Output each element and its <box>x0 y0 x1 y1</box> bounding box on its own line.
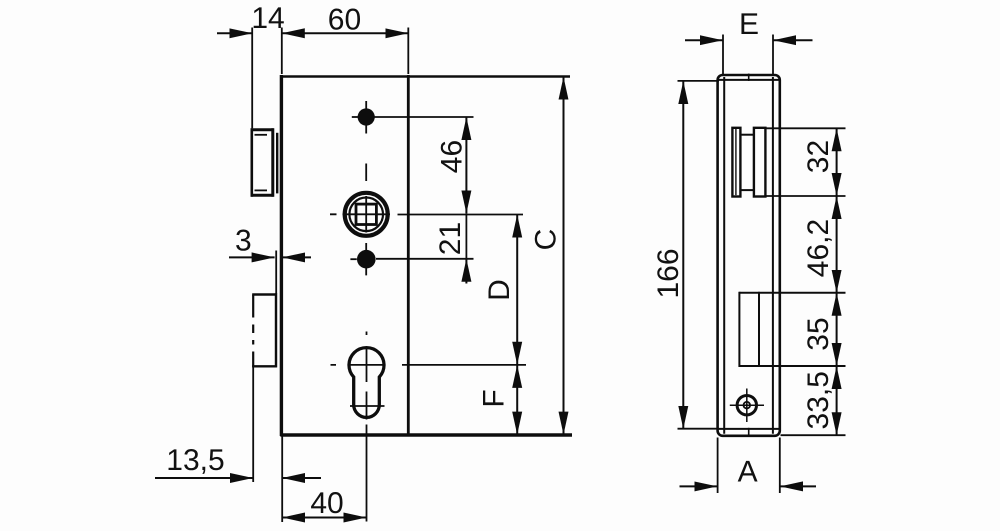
latch box top <box>251 128 274 131</box>
faceplate top tick <box>748 74 750 81</box>
right chain extension 128.3 <box>766 127 846 129</box>
deadbolt box bottom <box>252 365 277 367</box>
deadbolt slot right <box>758 292 760 367</box>
dim 166 extension lines <box>678 80 720 82</box>
dim 21 bottom arrow <box>465 259 467 284</box>
latch box left <box>251 128 254 196</box>
dim 21 line <box>465 213 467 258</box>
top hole <box>358 108 375 125</box>
spindle hub inner circle <box>349 198 383 232</box>
dim C line <box>563 77 565 435</box>
faceplate inner top line <box>719 79 780 81</box>
faceplate front line <box>275 251 277 295</box>
svg-text:21: 21 <box>434 222 467 255</box>
dim 46,2 line <box>836 196 838 293</box>
deadbolt box left dashed <box>252 295 254 368</box>
dim 166 line <box>682 81 684 429</box>
svg-text:14: 14 <box>251 2 284 35</box>
svg-text:35: 35 <box>802 317 835 350</box>
deadbolt box top <box>252 293 277 295</box>
spindle center line horizontal <box>330 213 390 215</box>
deadbolt box right <box>275 293 277 367</box>
top hole center marks <box>365 101 367 134</box>
dim 13,5 line left <box>155 477 253 479</box>
dim 14 line <box>217 32 252 34</box>
latch box bottom <box>251 194 274 197</box>
faceplate inner right line <box>772 77 774 434</box>
dim 40 line <box>282 517 366 519</box>
dim 60 right extension <box>407 28 409 75</box>
svg-text:32: 32 <box>802 140 835 173</box>
dim 60 line <box>282 32 409 34</box>
dim 13,5 line right <box>282 477 321 479</box>
euro cylinder hole outline <box>349 348 384 418</box>
latch notch top line <box>255 134 268 136</box>
svg-text:F: F <box>478 389 511 407</box>
faceplate outer outline (right view) <box>718 75 780 436</box>
extension body left bottom <box>281 437 283 523</box>
svg-text:60: 60 <box>328 3 361 36</box>
dim E line right <box>773 39 812 41</box>
dim 14 extension lines <box>251 28 253 129</box>
lock body bottom edge + C/F extension <box>280 433 572 436</box>
cylinder center line horizontal <box>331 364 385 366</box>
svg-text:3: 3 <box>235 224 252 257</box>
dim A line left <box>680 485 718 487</box>
latch box right <box>271 128 274 196</box>
deadbolt slot left <box>738 292 740 367</box>
spindle center line vertical <box>365 164 367 276</box>
svg-text:13,5: 13,5 <box>166 444 224 477</box>
dim 46 line <box>465 117 467 213</box>
screw hole inner <box>744 402 751 409</box>
svg-text:46,2: 46,2 <box>802 219 835 277</box>
screw hole center lines <box>746 389 748 423</box>
lock body left edge <box>280 75 283 436</box>
dim 3 line right <box>282 256 311 258</box>
lock body top edge + C extension <box>280 75 570 77</box>
deadbolt slot bottom + extension <box>739 365 845 367</box>
faceplate inner left line <box>723 77 725 434</box>
lower hole center marks <box>350 258 356 260</box>
cylinder center line vertical <box>366 332 368 522</box>
latch right flange <box>754 128 766 197</box>
latch notch bottom line <box>255 189 268 191</box>
spindle extension line <box>398 214 524 216</box>
latch web top <box>740 134 754 136</box>
dim 3 line left <box>229 256 275 258</box>
latch flange inner line <box>735 129 737 195</box>
dim E extension lines <box>722 35 724 75</box>
right chain extension bottom <box>781 434 846 436</box>
svg-text:E: E <box>739 8 759 41</box>
dim A extension lines <box>717 438 719 494</box>
svg-text:33,5: 33,5 <box>802 371 835 429</box>
cylinder extension line <box>402 364 526 366</box>
lower hole <box>357 250 376 269</box>
dim A line right <box>780 485 816 487</box>
dim 32 line <box>836 128 838 196</box>
svg-text:46: 46 <box>436 140 469 173</box>
latch mid vertical line <box>276 133 278 194</box>
svg-text:40: 40 <box>310 487 343 520</box>
screw hole outer <box>737 396 756 415</box>
top hole extension line <box>374 116 474 118</box>
dim 33,5 line <box>836 366 838 435</box>
lock body right edge <box>407 75 410 436</box>
lower hole extension line <box>376 258 474 260</box>
spindle square <box>356 204 376 224</box>
right chain extension 196 <box>766 195 846 197</box>
dim F line <box>516 365 518 435</box>
extension line from deadbolt to 13,5 dim <box>252 367 254 482</box>
dim D line <box>516 215 518 365</box>
faceplate bottom tick <box>748 428 750 437</box>
dim 35 line <box>836 293 838 366</box>
deadbolt slot top + extension <box>739 292 845 294</box>
latch web bottom <box>740 189 754 191</box>
spindle hub outer circle <box>345 193 388 236</box>
svg-text:A: A <box>738 455 758 488</box>
svg-text:166: 166 <box>652 248 685 298</box>
faceplate inner bottom line <box>719 428 780 430</box>
cylinder stem arc center tick <box>350 405 385 407</box>
svg-text:D: D <box>483 279 516 301</box>
dim E line left <box>685 39 723 41</box>
svg-text:C: C <box>530 229 563 251</box>
latch left flange (right view) <box>732 128 740 197</box>
